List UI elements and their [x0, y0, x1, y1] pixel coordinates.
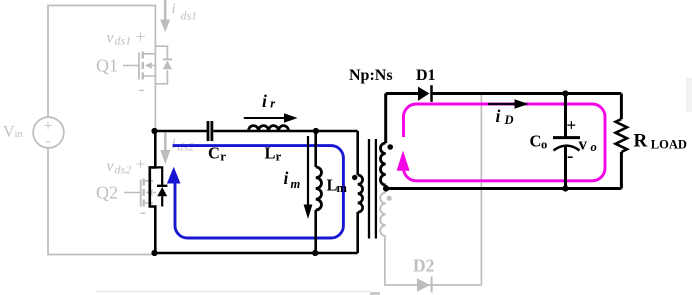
svg-text:C: C: [208, 144, 220, 163]
svg-text:Np:Ns: Np:Ns: [349, 67, 393, 84]
svg-text:-: -: [46, 134, 51, 150]
svg-text:o: o: [541, 138, 547, 152]
svg-text:in: in: [15, 129, 24, 140]
svg-text:i: i: [496, 106, 501, 126]
svg-text:v: v: [579, 135, 588, 154]
svg-text:ds1: ds1: [181, 8, 198, 22]
svg-text:L: L: [265, 144, 276, 163]
svg-text:D2: D2: [413, 256, 434, 276]
svg-text:v: v: [107, 158, 114, 175]
svg-text:i: i: [172, 136, 176, 152]
svg-text:ds2: ds2: [115, 163, 132, 177]
svg-text:ds1: ds1: [115, 34, 132, 48]
svg-text:LOAD: LOAD: [651, 138, 687, 152]
svg-text:o: o: [591, 140, 597, 154]
svg-text:i: i: [172, 1, 176, 17]
svg-text:V: V: [3, 124, 15, 141]
svg-text:+: +: [136, 27, 146, 47]
svg-text:D1: D1: [416, 67, 436, 84]
svg-text:R: R: [634, 131, 648, 152]
svg-text:m: m: [337, 181, 348, 195]
svg-text:r: r: [270, 97, 275, 111]
svg-text:i: i: [262, 91, 267, 111]
svg-text:-: -: [567, 146, 573, 167]
svg-text:v: v: [107, 29, 114, 46]
svg-text:Q2: Q2: [96, 183, 118, 203]
svg-text:m: m: [291, 177, 301, 191]
svg-text:-: -: [139, 79, 145, 99]
svg-text:C: C: [530, 132, 542, 151]
svg-text:-: -: [140, 202, 146, 222]
svg-text:Q1: Q1: [96, 56, 118, 76]
svg-text:r: r: [276, 149, 282, 164]
svg-text:r: r: [220, 149, 226, 164]
svg-text:D: D: [504, 113, 514, 127]
svg-text:+: +: [44, 118, 53, 135]
svg-text:i: i: [284, 168, 289, 188]
svg-text:+: +: [136, 154, 146, 174]
svg-text:+: +: [567, 116, 577, 135]
